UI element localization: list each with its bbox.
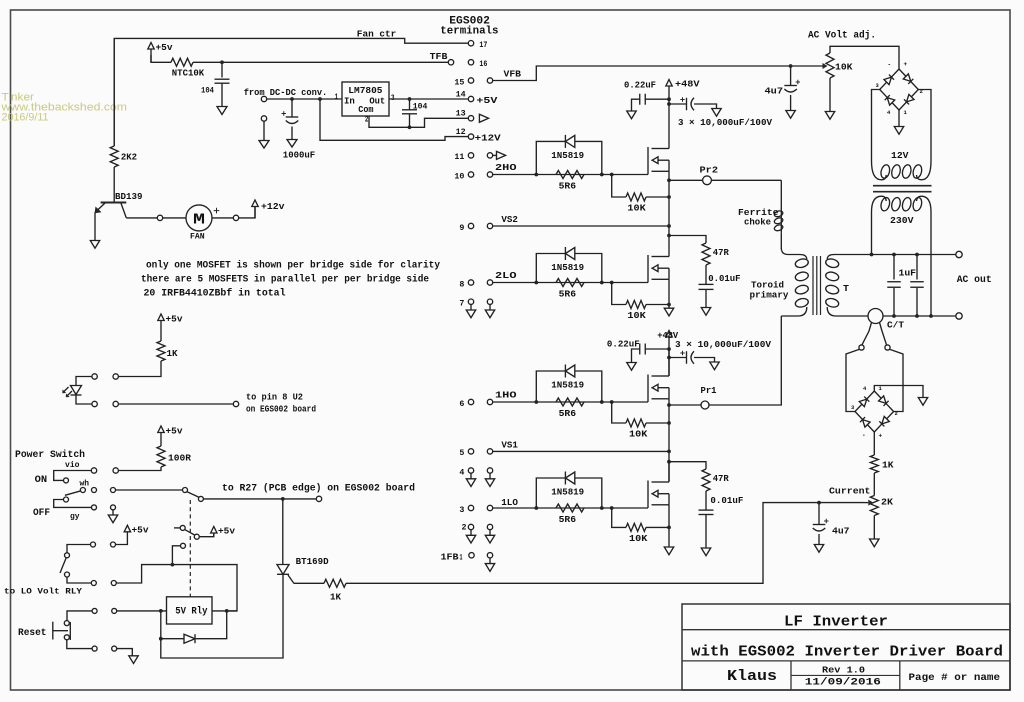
label +5v (LED) (166, 314, 183, 325)
svg-text:4: 4 (459, 467, 464, 477)
svg-text:0.01uF: 0.01uF (710, 495, 743, 506)
wire 1HO source/output (668, 399, 670, 481)
label OFF (33, 507, 50, 519)
label 9 (459, 223, 464, 233)
wire 4u7 sense bottom lead (818, 534, 820, 545)
wire 1000uF top lead (291, 99, 293, 117)
terminal VS2 connector (487, 223, 492, 228)
wire to R27 (203, 498, 316, 500)
label 7 (459, 299, 464, 309)
ground (1000uF) (287, 140, 297, 148)
label 6 (459, 399, 464, 409)
wire 1LO drain up (668, 462, 670, 482)
wire DC-DC input to LM7805 In (267, 98, 342, 100)
svg-text:FAN: FAN (190, 233, 205, 241)
node flyback diode left junction (159, 637, 163, 641)
ground (sense bridge) (918, 398, 927, 406)
svg-text:+5v: +5v (166, 314, 183, 325)
resistor 10K (2LO) (626, 301, 646, 309)
svg-text:10K: 10K (629, 533, 648, 544)
terminal LED bottom right (113, 401, 118, 406)
ground (OFF) (108, 515, 117, 523)
wire LED cathode (76, 395, 92, 404)
wire 0.01uF gnd lead (bottom) (705, 515, 707, 549)
wire +5v to NTC10K (151, 55, 171, 62)
terminal relay feed contact (181, 543, 186, 548)
core feedback transformer (873, 186, 932, 192)
wire fan right lead (212, 217, 233, 219)
node Com/104 junction (408, 125, 412, 129)
svg-text:11/09/2016: 11/09/2016 (805, 677, 881, 689)
svg-text:8: 8 (459, 279, 464, 289)
terminal OFF mid (92, 505, 97, 510)
svg-text:AC Volt adj.: AC Volt adj. (808, 30, 876, 42)
ground (pin 1 right) (485, 558, 494, 571)
wire OFF gnd stub (112, 510, 114, 515)
transistor Q MOSFET 1HO (648, 375, 669, 403)
terminal DC-DC ground input (261, 116, 266, 121)
terminal relay pole 2 (194, 534, 199, 539)
wire relay contact 2 stub (174, 527, 180, 529)
svg-text:-: - (888, 62, 892, 69)
svg-text:47R: 47R (713, 473, 729, 484)
wire BD139 emitter to ground (94, 213, 96, 241)
svg-text:5: 5 (459, 448, 464, 458)
wire LO volt to relay right (117, 565, 238, 611)
svg-text:13: 13 (456, 109, 466, 119)
wire 10000uF top lead (669, 103, 687, 105)
label pin 1 (LM7805) (335, 93, 339, 102)
wire 0.22uF bottom left lead (645, 348, 669, 350)
wire AC out bottom right (883, 315, 956, 317)
wire 1N5819 loop right (2LO) (575, 254, 602, 283)
inductor ferrite choke (774, 210, 784, 232)
svg-text:-: - (862, 432, 866, 439)
node 2LO gate nodes (534, 281, 613, 285)
label 10K (2HO) (627, 203, 646, 214)
label to R27 (PCB edge) on EGS002 board (222, 482, 415, 494)
node 0.22uF top junction (667, 97, 671, 101)
note line 2 (141, 274, 429, 286)
terminal pin 16 (468, 60, 473, 65)
terminal relay contact 2 (180, 525, 185, 530)
wire VFB to AC volt adj (493, 66, 824, 81)
svg-text:17: 17 (479, 40, 487, 50)
node relay right diode junction (225, 609, 229, 613)
wire 2HO source/output (668, 171, 670, 235)
label Klaus (727, 668, 777, 685)
label 2LO (495, 270, 517, 281)
label terminals header (440, 26, 498, 38)
svg-text:2: 2 (462, 523, 467, 533)
wire 2HO drain up (668, 148, 670, 150)
label ON (35, 474, 48, 486)
label choke (744, 217, 771, 228)
resistor 1K (BT169D gate) (324, 579, 346, 587)
svg-text:Current: Current (829, 486, 871, 497)
wire 10000uF bottom gnd lead (694, 358, 715, 363)
transistor Q MOSFET 1LO (648, 481, 669, 509)
svg-text:Power Switch: Power Switch (15, 449, 85, 461)
svg-text:3 × 10,000uF/100V: 3 × 10,000uF/100V (678, 117, 772, 128)
wire sense bridge bottom to 1K (873, 432, 875, 455)
capacitor 0.22uF (bottom) (640, 344, 646, 355)
wire reset to ground (117, 649, 132, 656)
label NTC10K (172, 68, 205, 79)
label Out (369, 96, 385, 107)
label 5 (459, 448, 464, 458)
label 104 (NTC filter) (201, 87, 214, 96)
label 0.22uF (top) (624, 80, 656, 91)
ground (NTC 104 cap) (217, 107, 227, 115)
label 16 (479, 59, 487, 69)
capacitor 0.22uF (top) (640, 94, 646, 105)
ground (4u7 sense) (814, 545, 823, 553)
dashed linkage (relay poles) (189, 500, 191, 597)
label 2HO (495, 162, 517, 173)
label T (843, 283, 849, 294)
svg-text:6: 6 (459, 399, 464, 409)
wire 47R top lead (669, 236, 706, 244)
label EGS002 header (449, 16, 490, 28)
svg-text:1LO: 1LO (501, 497, 518, 508)
wire 10K to source (1LO) (646, 526, 669, 528)
capacitor 0.01uF (top) (699, 284, 714, 289)
label Pr1 (701, 385, 717, 396)
label to pin 8 U2 (246, 393, 303, 403)
ground (pin 4 left) (466, 473, 475, 486)
svg-text:T: T (843, 283, 849, 294)
svg-text:2K: 2K (881, 497, 893, 508)
wire 10000uF bottom lead (669, 357, 687, 359)
wire 1K to LED connector (118, 361, 161, 377)
wire +12V branch to pin 12 (320, 99, 468, 140)
label 4u7 (VFB) (765, 86, 784, 97)
svg-text:vio: vio (65, 460, 80, 470)
wire 2K2 top (113, 38, 115, 146)
wire 2HO gate row (493, 174, 648, 176)
wire 1N5819 loop right (1LO) (575, 478, 602, 508)
arrow pin 13 output (479, 114, 488, 122)
wire choke to primary top (780, 232, 782, 249)
svg-text:NTC10K: NTC10K (172, 68, 205, 79)
label Com (358, 104, 373, 115)
svg-text:2LO: 2LO (495, 270, 517, 281)
label 1N5819 (1HO) (551, 380, 584, 391)
svg-text:VS2: VS2 (501, 214, 518, 225)
ground (pin 2 left) (466, 530, 475, 543)
resistor 1K (LED) (157, 341, 165, 361)
wire 1uF cap 1 leads (893, 255, 895, 280)
label Pr2 (700, 165, 719, 176)
wire 0.22uF bottom gnd lead (632, 349, 640, 363)
svg-text:5R6: 5R6 (559, 514, 577, 525)
resistor 5R6 (2HO) (556, 171, 584, 179)
svg-text:2: 2 (895, 410, 898, 417)
label 2K (881, 497, 893, 508)
terminal pin 10 (468, 172, 473, 177)
wire reset top bracket (67, 611, 92, 621)
terminal pin 15 (468, 78, 473, 83)
label 11 (454, 152, 464, 162)
label +5v (LO volt) (132, 525, 149, 536)
node VS2 junction (667, 224, 671, 228)
wire 4u7 sense top lead (818, 503, 820, 525)
label 10 (454, 171, 464, 181)
resistor 47R (bottom) (702, 469, 710, 491)
ground (10K pot) (825, 112, 834, 120)
wire VS1 (493, 450, 669, 452)
svg-text:to LO Volt RLY: to LO Volt RLY (4, 587, 83, 597)
winding toroid primary (781, 248, 809, 316)
wire 0.01uF gnd lead (top) (705, 289, 707, 307)
watermark Tinker www.thebackshed.com 2016/9/11 (0, 92, 127, 124)
switch lever (relay pole 2) (184, 529, 195, 535)
winding 230V (872, 196, 932, 212)
label 3 x 10,000uF/100V (top) (678, 117, 772, 128)
terminal LO volt contact bottom (65, 572, 70, 577)
svg-text:M: M (193, 212, 205, 228)
node 0.22uF bottom junction (667, 347, 671, 351)
resistor 10K (2HO) (626, 193, 646, 201)
winding toroid secondary (825, 255, 872, 317)
wire pot top to bridge (830, 46, 899, 69)
wire LM7805 Com to pin 13 (369, 116, 468, 127)
wire BD139 collector to fan (126, 217, 157, 219)
wire 1HO gate row (493, 401, 648, 403)
svg-text:Rev 1.0: Rev 1.0 (822, 665, 865, 676)
wire flyback diode loop (161, 611, 184, 639)
probe Pr1 circle (701, 401, 709, 409)
terminal VS1 connector (487, 449, 492, 454)
title divider 2 (682, 660, 1010, 662)
node 10000uF bottom junction (667, 356, 671, 360)
terminal relay contact 1 (183, 488, 188, 493)
svg-text:Klaus: Klaus (727, 668, 777, 685)
resistor 5R6 (1LO) (556, 504, 584, 512)
label 1N5819 (2LO) (551, 262, 584, 273)
svg-text:on EGS002 board: on EGS002 board (246, 405, 316, 415)
node 2HO gate nodes (534, 173, 613, 177)
winding 12V (872, 161, 932, 180)
ground (3x10000uF bottom) (710, 362, 719, 370)
ground (BD139 emitter) (90, 241, 99, 249)
terminal OFF right (111, 505, 116, 510)
svg-text:10K: 10K (627, 310, 646, 321)
title divider v2 (899, 661, 901, 690)
svg-text:BD139: BD139 (115, 191, 143, 202)
wiper arrow (10K pot) (823, 63, 828, 69)
svg-text:1000uF: 1000uF (283, 150, 316, 161)
diode D 1N5819 (2HO) (565, 135, 574, 148)
terminal LED top left (92, 374, 97, 379)
terminal pin 7 (468, 299, 473, 304)
svg-text:1K: 1K (882, 460, 894, 471)
wire 1N5819 loop (1LO) (536, 478, 565, 508)
power +5v (LED) (158, 314, 164, 341)
wire 0.22uF top gnd lead (632, 99, 640, 111)
wire LED anode (76, 377, 92, 386)
terminal LO volt contact top (65, 553, 70, 558)
terminal fan left (157, 215, 162, 220)
arrow pin 11 output (497, 151, 506, 159)
label +5V (476, 95, 497, 106)
wire 230V left lead (871, 212, 873, 255)
wire flyback diode loop right (196, 611, 227, 639)
resistor 2K2 (110, 146, 118, 167)
svg-text:5V Rly: 5V Rly (175, 606, 208, 618)
svg-text:terminals: terminals (440, 26, 498, 38)
label BT169D (296, 556, 329, 567)
wire Pr2 to ferrite choke (780, 180, 782, 210)
svg-text:0.22uF: 0.22uF (607, 339, 640, 350)
label 4 (459, 467, 464, 477)
label 13 (456, 109, 466, 119)
wire LED to pin8 U2 (118, 403, 233, 405)
label AC Volt adj. (808, 30, 876, 42)
wire LO volt bracket top (67, 545, 90, 553)
wire 10K drop (1HO) (612, 402, 626, 423)
ground (2LO source) (664, 308, 673, 316)
title divider rev (791, 674, 900, 676)
svg-text:11: 11 (454, 152, 464, 162)
wire 10K drop (2LO) (612, 283, 626, 305)
label AC out (957, 274, 992, 286)
label 4u7 (sense) (832, 526, 850, 537)
terminal LED top right (113, 374, 118, 379)
node relay feed junction (171, 563, 175, 567)
svg-text:there are 5 MOSFETS in paralle: there are 5 MOSFETS in parallel per per … (141, 274, 429, 286)
power +48V (bottom) (666, 331, 672, 350)
label 10K (1HO) (629, 429, 648, 440)
svg-text:20 IRFB4410ZBbf in total: 20 IRFB4410ZBbf in total (144, 288, 286, 300)
svg-text:0.01uF: 0.01uF (708, 273, 741, 284)
label 1000uF (283, 150, 316, 161)
label 5V Rly (175, 606, 208, 618)
wire 104 cap bottom lead (221, 83, 223, 106)
node 1HO gate nodes (534, 400, 613, 404)
note line 3 (144, 288, 286, 300)
terminal pin 11 connector (487, 153, 492, 158)
wire 1uF cap 1 lower (893, 288, 895, 316)
terminal C/T right (885, 345, 890, 350)
svg-text:3 × 10,000uF/100V: 3 × 10,000uF/100V (675, 339, 771, 350)
wire bridge1 output Pr1 (669, 316, 781, 405)
terminal fan right (233, 215, 238, 220)
svg-text:Fan ctr: Fan ctr (357, 28, 397, 39)
ground (pin 2 right) (485, 530, 494, 543)
label Fan ctr (357, 28, 397, 39)
svg-text:+12V: +12V (475, 132, 501, 143)
label vio (65, 460, 80, 470)
wire VS2 (493, 225, 669, 227)
svg-text:1N5819: 1N5819 (551, 487, 584, 498)
label 1 (460, 553, 463, 563)
node 1HO output (667, 403, 671, 407)
wire bridge right to 12V winding (918, 90, 931, 162)
switch pushbutton Reset (53, 622, 71, 640)
title divider 1 (682, 629, 1010, 631)
ground (pin 7 right) (485, 304, 494, 317)
wire 1N5819 loop right (2HO) (575, 141, 602, 174)
ground (AC adj bridge) (894, 127, 903, 135)
terminal OFF contact (64, 497, 69, 502)
wire DC-DC gnd stub (263, 121, 265, 140)
label 104 (LM7805 out) (413, 101, 428, 111)
wire 1uF cap 2 leads (916, 255, 918, 280)
svg-text:1K: 1K (167, 348, 178, 359)
terminal LO volt bottom right (111, 581, 116, 586)
capacitor 3x10000uF (bottom) (680, 351, 694, 364)
wire 10K to source (2LO) (646, 304, 669, 306)
node 10000uF top junction (667, 102, 671, 106)
wire 1N5819 loop (1HO) (536, 371, 565, 402)
title block box (682, 604, 1010, 690)
svg-text:4u7: 4u7 (765, 86, 784, 97)
label 3 x 10,000uF/100V (bottom) (675, 339, 771, 350)
terminal 1LO connector (487, 505, 492, 510)
diode flyback (relay) (184, 634, 195, 643)
label from DC-DC conv. (244, 87, 328, 98)
ground (0.22uF top) (627, 111, 636, 119)
svg-text:VS1: VS1 (501, 439, 518, 450)
resistor 5R6 (1HO) (556, 398, 584, 406)
capacitor 1uF b (910, 282, 924, 288)
wire bridge bottom to gnd (898, 110, 900, 127)
resistor 1K (sense) (870, 455, 878, 473)
svg-text:2K2: 2K2 (121, 152, 137, 163)
terminal to R27 (316, 496, 321, 501)
svg-text:14: 14 (456, 89, 466, 99)
rectifier bridge (current sense) (851, 385, 898, 440)
label VS2 (501, 214, 518, 225)
terminal pin 6 (468, 399, 473, 404)
ground (2K pot) (870, 539, 879, 547)
ground (1LO source) (664, 547, 673, 555)
wire 1K to current pot (346, 503, 864, 584)
label 10K (pot) (835, 62, 853, 73)
wire 1LO source down (668, 505, 670, 547)
svg-text:VFB: VFB (504, 69, 522, 80)
transformer C/T circle (868, 309, 883, 324)
label Toroid (751, 280, 784, 291)
label 5R6 (2HO) (559, 180, 577, 191)
terminal ON contact (64, 478, 69, 483)
switch lever (power switch) (65, 491, 82, 496)
terminal LED bottom left (92, 401, 97, 406)
wire AC out top (872, 254, 957, 256)
wire BT169D gate to 1K (294, 582, 324, 584)
label primary (750, 290, 789, 301)
terminal LO volt right (111, 542, 116, 547)
terminal pin 5 (468, 449, 473, 454)
terminal AC out top (956, 251, 962, 257)
label Current (829, 486, 871, 497)
terminal pin 2 (468, 524, 473, 529)
svg-text:1: 1 (335, 93, 339, 102)
svg-text:+12v: +12v (261, 201, 285, 212)
svg-text:1N5819: 1N5819 (551, 380, 584, 391)
wire C/T lead right (880, 323, 887, 345)
capacitor C 1000uF (282, 111, 299, 123)
terminal VFB connector (487, 78, 492, 83)
terminal to pin 8 U2 (233, 401, 238, 406)
label on EGS002 board (LED) (246, 405, 316, 415)
terminal pin 17 (468, 41, 473, 46)
note line 1 (146, 260, 441, 272)
svg-text:ON: ON (35, 474, 48, 486)
label 5R6 (2LO) (559, 288, 577, 299)
